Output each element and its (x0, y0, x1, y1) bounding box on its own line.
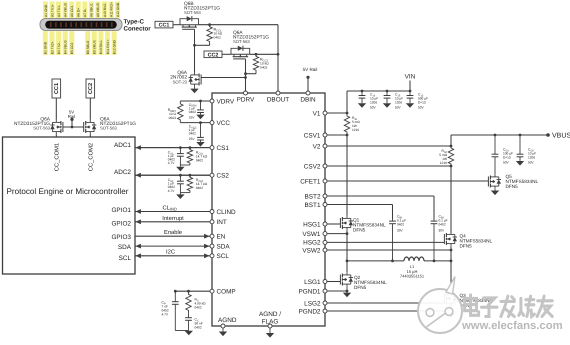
transistor Q5 (488, 174, 501, 188)
resistor RCC1 (207, 23, 212, 45)
svg-text:A8 SBU1: A8 SBU1 (90, 3, 94, 17)
svg-text:CLIND: CLIND (163, 204, 177, 211)
inductor L1 (404, 257, 424, 261)
svg-text:Enable: Enable (164, 229, 182, 236)
svg-text:SDA: SDA (217, 243, 231, 250)
svg-text:HSG1: HSG1 (303, 221, 321, 228)
pin AGND/FLAG (259, 311, 281, 328)
pin CC_COM2 (87, 143, 94, 171)
svg-text:4.7V: 4.7V (168, 161, 175, 165)
svg-text:1206: 1206 (528, 155, 535, 159)
ground AGND (219, 328, 227, 336)
svg-text:25V: 25V (189, 137, 196, 141)
transistor Q1 (340, 216, 353, 230)
svg-text:CFET1: CFET1 (300, 178, 321, 185)
svg-text:VCC: VCC (217, 120, 231, 127)
svg-text:CC2: CC2 (208, 52, 219, 58)
label RCC2 (260, 58, 269, 70)
capacitor CC (185, 314, 192, 331)
wire COMP line (174, 290, 210, 293)
node CC2 net label (204, 51, 222, 58)
transistor Q6A right (CC2 clamp) (72, 120, 96, 134)
capacitor C14 (358, 90, 366, 108)
label Q4 (460, 234, 493, 249)
wire L1 right rail (424, 260, 452, 263)
svg-text:VBUS: VBUS (552, 133, 570, 140)
svg-text:0603: 0603 (169, 116, 177, 120)
label CDRV (189, 103, 197, 120)
label C14 (370, 92, 378, 109)
ground below Q2 (343, 287, 351, 298)
node 5V Rail at DBIN (303, 67, 318, 91)
svg-text:0402: 0402 (195, 305, 202, 309)
svg-text:CC1: CC1 (54, 83, 60, 94)
ground below 2N7002 (190, 87, 198, 94)
svg-text:30V: 30V (439, 229, 446, 233)
label RCS2 (196, 178, 208, 190)
pin GPIO3 (111, 234, 131, 241)
label CO2 (528, 147, 536, 164)
wire INT to GPIO2 (135, 219, 210, 224)
svg-text:COMP: COMP (217, 289, 236, 296)
IC left pins VDRV VCC CS1 CS2 CLIND INT EN SDA SCL COMP (210, 98, 236, 295)
svg-text:B1 GND: B1 GND (44, 41, 48, 54)
wire VCC line (180, 122, 210, 124)
svg-text:PGND1: PGND1 (298, 288, 320, 295)
Type-C connector pin labels bottom row B1-B12 (43, 31, 117, 55)
svg-text:SOT-563: SOT-563 (184, 10, 201, 15)
resistor RCC2 (253, 53, 258, 74)
wire VSW1 to rail (327, 232, 348, 235)
label Interrupt (162, 216, 184, 222)
transistor Q4 (444, 232, 457, 246)
wire VBUS rail (451, 135, 548, 146)
svg-text:INT: INT (217, 219, 227, 226)
resistor RS2 (448, 146, 453, 166)
capacitor CO2 (516, 134, 524, 166)
capacitor CB1 (389, 220, 396, 261)
svg-text:4.7V: 4.7V (168, 189, 175, 193)
wire PDRV rail vertical (244, 59, 247, 91)
svg-text:BST1: BST1 (305, 202, 321, 209)
svg-text:SOT-23: SOT-23 (173, 79, 188, 84)
svg-text:1210: 1210 (440, 161, 447, 165)
transistor Q3 (444, 291, 457, 305)
svg-text:0402: 0402 (189, 132, 196, 136)
wire Q6B gate node down to Q6A 2N7002 drain (194, 45, 196, 72)
svg-text:0402: 0402 (439, 223, 446, 227)
svg-text:25V: 25V (189, 115, 196, 119)
svg-text:SDA: SDA (118, 244, 132, 251)
svg-text:50V: 50V (395, 105, 402, 109)
label RC (195, 297, 207, 309)
MCU Protocol Engine box (3, 137, 136, 274)
transistor Q6A left (CC1 clamp) (50, 120, 72, 134)
svg-text:A6 D+: A6 D+ (77, 8, 81, 17)
wire RCC2 bottom to PDRV rail (244, 72, 256, 75)
svg-text:VDRV: VDRV (217, 98, 235, 105)
capacitor C13 (406, 90, 414, 108)
label C15 (395, 92, 403, 109)
wire V2 to RS2 (327, 145, 452, 148)
svg-text:A7 D-: A7 D- (83, 9, 87, 17)
wire CSV2 rail down to Q4 drain (450, 166, 452, 233)
svg-text:0402: 0402 (260, 66, 268, 70)
capacitor C15 (383, 90, 391, 108)
wire BST2 to CB2 (327, 196, 434, 220)
svg-text:FLAG: FLAG (262, 318, 279, 325)
pin GPIO1 (111, 207, 131, 214)
svg-text:A11 RX2+: A11 RX2+ (109, 2, 113, 17)
wire L1 left rail (346, 260, 404, 263)
svg-text:V1: V1 (313, 110, 321, 117)
wire HSG1 to Q1 gate (327, 223, 340, 225)
svg-text:ADC1: ADC1 (114, 142, 131, 149)
label RCS1 (196, 150, 208, 162)
label Q6A NTZD3152PT1G (233, 30, 269, 44)
wire V1 rail down to Q1 (346, 135, 348, 216)
svg-text:CLIND: CLIND (217, 209, 237, 216)
label CP (162, 300, 169, 316)
svg-text:B10 RX1-: B10 RX1- (99, 40, 103, 54)
label Enable (164, 229, 182, 236)
svg-text:DFN5: DFN5 (460, 244, 473, 249)
svg-text:0402: 0402 (196, 186, 203, 190)
svg-text:A10 RX2-: A10 RX2- (103, 3, 107, 17)
wire Q1 source down to L1 left (346, 230, 348, 272)
svg-text:0402: 0402 (189, 110, 196, 114)
wire CLIND to GPIO1 (135, 209, 210, 214)
wire SDA (135, 244, 210, 249)
svg-text:Protocol Engine or Microcontro: Protocol Engine or Microcontroller (7, 187, 129, 196)
svg-text:1206: 1206 (370, 100, 377, 104)
svg-text:AGND: AGND (218, 317, 237, 324)
label Q6A left (14, 117, 51, 131)
node CC1 net label (155, 21, 173, 28)
wire Q6A left source to CC_COM1 (55, 134, 57, 139)
node CC1 vertical net label (52, 79, 61, 98)
svg-text:50V: 50V (528, 160, 535, 164)
svg-text:Interrupt: Interrupt (162, 216, 184, 222)
label Q6A 2N7002 (170, 70, 188, 84)
resistor RS1 (344, 113, 349, 135)
svg-text:B9 VBUS: B9 VBUS (93, 39, 97, 54)
wire PGND2 to Q3 source (327, 310, 452, 313)
IC top pins PDRV DBOUT DBIN (237, 91, 316, 103)
wire ADC1 to CS1 (135, 145, 210, 150)
svg-text:V2: V2 (313, 143, 321, 150)
label CLIND signal (163, 204, 177, 211)
svg-text:CS2: CS2 (217, 173, 230, 180)
svg-text:CC2: CC2 (88, 83, 94, 94)
label RS2 (439, 149, 447, 165)
pin CC_COM1 (53, 143, 60, 171)
svg-text:AGND /: AGND / (259, 311, 281, 318)
label CS2 cap (168, 178, 175, 193)
svg-text:A2 TX1+: A2 TX1+ (50, 4, 54, 17)
svg-text:0402: 0402 (196, 159, 203, 163)
wire PGND1 to Q2 source (327, 290, 348, 293)
wire comp ground rail (175, 331, 193, 336)
wire Q6A right source to CC_COM2 (89, 134, 91, 139)
svg-text:A3 TX1-: A3 TX1- (57, 5, 61, 17)
wire GPIO3 to EN (135, 234, 210, 239)
transistor Q6A 2N7002 (189, 72, 246, 86)
node CC2 vertical net label (86, 79, 95, 98)
svg-text:Type-C: Type-C (124, 19, 145, 26)
ground below Q3 (447, 306, 455, 318)
pin SCL mcu (119, 255, 132, 262)
svg-text:HSG2: HSG2 (303, 240, 321, 247)
label L1 (400, 264, 425, 278)
svg-text:LSG1: LSG1 (304, 279, 321, 286)
svg-text:DFN5: DFN5 (506, 184, 519, 189)
label CO1 (503, 147, 513, 164)
svg-text:VIN: VIN (405, 74, 416, 81)
svg-text:EN: EN (217, 234, 226, 241)
wire V1 to RS1 (327, 112, 348, 115)
wire Q4 source down to L1 right (450, 246, 452, 291)
label Q6B (184, 1, 220, 15)
svg-text:www.elecfans.com: www.elecfans.com (461, 320, 563, 332)
svg-text:LSG2: LSG2 (304, 300, 321, 307)
pin ADC1 (114, 142, 131, 149)
capacitor CDRV (196, 100, 204, 120)
svg-text:CC1: CC1 (159, 23, 170, 29)
label I2C (166, 249, 175, 256)
svg-text:VSW2: VSW2 (302, 247, 321, 254)
wire DBOUT rail vertical (277, 25, 279, 91)
svg-text:BST2: BST2 (305, 193, 321, 200)
svg-text:0402: 0402 (214, 36, 222, 40)
IC right pins V1 CSV1 V2 CSV2 CFET1 BST2 BST1 HSG1 VSW1 HSG2 VSW2 LSG1 PGND1 LSG2 PGND2 (298, 110, 327, 315)
svg-text:DFN5: DFN5 (354, 285, 367, 290)
svg-text:A5 CC1: A5 CC1 (70, 5, 74, 17)
svg-text:0402: 0402 (397, 223, 404, 227)
op-amp controller IC U1 box (212, 93, 325, 326)
wire CSV2 to RS2 bottom (327, 165, 452, 168)
svg-text:B12 GND: B12 GND (112, 39, 116, 54)
svg-text:5V Rail: 5V Rail (303, 67, 318, 72)
transistor Q2 (340, 272, 353, 286)
svg-text:GPIO1: GPIO1 (111, 207, 131, 214)
svg-text:1210: 1210 (352, 128, 359, 132)
wire VIN bus (347, 91, 410, 113)
svg-text:Conector: Conector (124, 26, 152, 33)
wire CSV1 to RS1 bottom (327, 134, 348, 137)
resistor RC (186, 291, 191, 313)
label Q2 (354, 275, 387, 290)
capacitor CVCC (196, 121, 204, 146)
svg-text:DBIN: DBIN (300, 96, 316, 103)
wire CC2 label to Q6A right FET (89, 98, 91, 120)
watermark elecfans logo (418, 277, 462, 334)
Type-C connector name label (124, 19, 152, 33)
svg-text:CS1: CS1 (217, 145, 230, 152)
capacitor CS2 and resistor RCS2 network (135, 174, 210, 199)
svg-text:4.7V: 4.7V (162, 312, 169, 316)
watermark chinese text dianzifashaoyou (465, 295, 553, 316)
wire LSG1 to Q2 gate (327, 281, 340, 283)
label Q1 (353, 218, 386, 233)
resistor RDRV (178, 101, 183, 123)
label C13 (418, 92, 428, 109)
svg-text:50V: 50V (370, 105, 377, 109)
label CC cap (195, 317, 203, 329)
label Protocol Engine or Microcontroller (7, 187, 129, 196)
wire HSG2 to Q4 gate (327, 241, 444, 243)
svg-text:30V: 30V (397, 229, 404, 233)
pin AGND (218, 317, 237, 328)
node 5V Rail at gates (68, 109, 76, 128)
wire SCL (135, 253, 210, 258)
svg-text:D=13: D=13 (418, 100, 426, 104)
svg-text:SCL: SCL (217, 253, 230, 260)
wire Q6A drain to DBOUT rail (250, 53, 280, 56)
svg-text:SOT-563: SOT-563 (33, 126, 50, 131)
wire VDRV line (180, 100, 210, 102)
svg-text:GPIO3: GPIO3 (111, 234, 131, 241)
capacitor CS1 and resistor RCS1 network (135, 146, 210, 171)
svg-text:A9 VBUS: A9 VBUS (96, 2, 100, 17)
svg-text:DBOUT: DBOUT (267, 96, 289, 103)
svg-text:DFN5: DFN5 (353, 228, 366, 233)
svg-text:I2C: I2C (166, 249, 175, 256)
label Q3 (460, 293, 493, 308)
svg-text:B2 TX2+: B2 TX2+ (50, 41, 54, 54)
svg-text:0402: 0402 (195, 325, 202, 329)
svg-text:1206: 1206 (395, 100, 402, 104)
svg-text:74403551151: 74403551151 (400, 274, 425, 279)
svg-text:SOT-563: SOT-563 (100, 126, 117, 131)
capacitor CB2 (431, 220, 438, 261)
node VIN (405, 74, 416, 91)
node VBUS (546, 133, 570, 140)
transistor Q6A (NTZD3152 second half) (231, 46, 250, 59)
svg-text:CC_COM1: CC_COM1 (53, 143, 60, 171)
svg-text:A12 GND: A12 GND (116, 2, 120, 17)
svg-text:VSW1: VSW1 (302, 231, 321, 238)
svg-text:CSV2: CSV2 (304, 163, 321, 170)
wire CC1 label to Q6A left FET (55, 98, 57, 120)
label RS1 (352, 116, 360, 132)
label CB2 (439, 215, 448, 233)
svg-text:GPIO2: GPIO2 (111, 220, 131, 227)
svg-text:B3 TX2-: B3 TX2- (57, 42, 61, 54)
svg-text:A4 VBUS: A4 VBUS (63, 2, 67, 17)
wire CC1 to Q6B (173, 24, 180, 26)
watermark url text (461, 320, 563, 332)
capacitor CP (172, 291, 179, 330)
svg-text:A1 GND: A1 GND (44, 4, 48, 17)
svg-text:B5 CC2: B5 CC2 (70, 42, 74, 54)
svg-text:50V: 50V (418, 105, 425, 109)
wire CC2 to Q6A (222, 53, 231, 55)
wire Q6B drain to DBOUT rail (199, 24, 279, 26)
wire LSG2 to Q3 gate (327, 302, 444, 304)
svg-text:CSV1: CSV1 (304, 132, 321, 139)
pin SDA mcu (118, 244, 132, 251)
capacitor CO1 (492, 134, 499, 175)
label CB1 (397, 215, 406, 233)
svg-text:SOT-563: SOT-563 (233, 39, 250, 44)
svg-text:B11 RX1+: B11 RX1+ (106, 39, 110, 54)
label RCC1 (214, 28, 223, 40)
svg-text:50V: 50V (503, 160, 510, 164)
ground below Q5 (491, 189, 499, 195)
label Q5 (506, 174, 539, 189)
ground AGND FLAG (266, 328, 274, 338)
wire RCC1 bottom to Q6B gate (193, 44, 210, 47)
svg-text:B8 SBU2: B8 SBU2 (86, 40, 90, 54)
svg-text:SCL: SCL (119, 255, 132, 262)
svg-text:D=13: D=13 (503, 155, 511, 159)
transistor Q6B (180, 16, 199, 45)
svg-text:PGND2: PGND2 (298, 308, 320, 315)
pin GPIO2 (111, 220, 131, 227)
svg-text:CC_COM2: CC_COM2 (87, 143, 94, 171)
Type-C connector J1 receptacle (40, 19, 122, 31)
label CS1 cap (168, 150, 175, 165)
label RDRV (168, 108, 177, 120)
pin ADC2 (114, 169, 131, 176)
wire VSW2 to rail (327, 249, 452, 252)
svg-text:B4 VBUS: B4 VBUS (64, 39, 68, 54)
wire CFET1 to Q5 gate (327, 180, 488, 182)
svg-text:PDRV: PDRV (237, 96, 255, 103)
label CVCC (189, 124, 197, 141)
Type-C connector pin labels top row A1-A12 (43, 2, 120, 19)
wire ADC2 to CS2 (135, 173, 210, 178)
label Q6A right (100, 117, 136, 131)
svg-text:ADC2: ADC2 (114, 169, 131, 176)
wire BST1 to CB1 (327, 205, 393, 220)
